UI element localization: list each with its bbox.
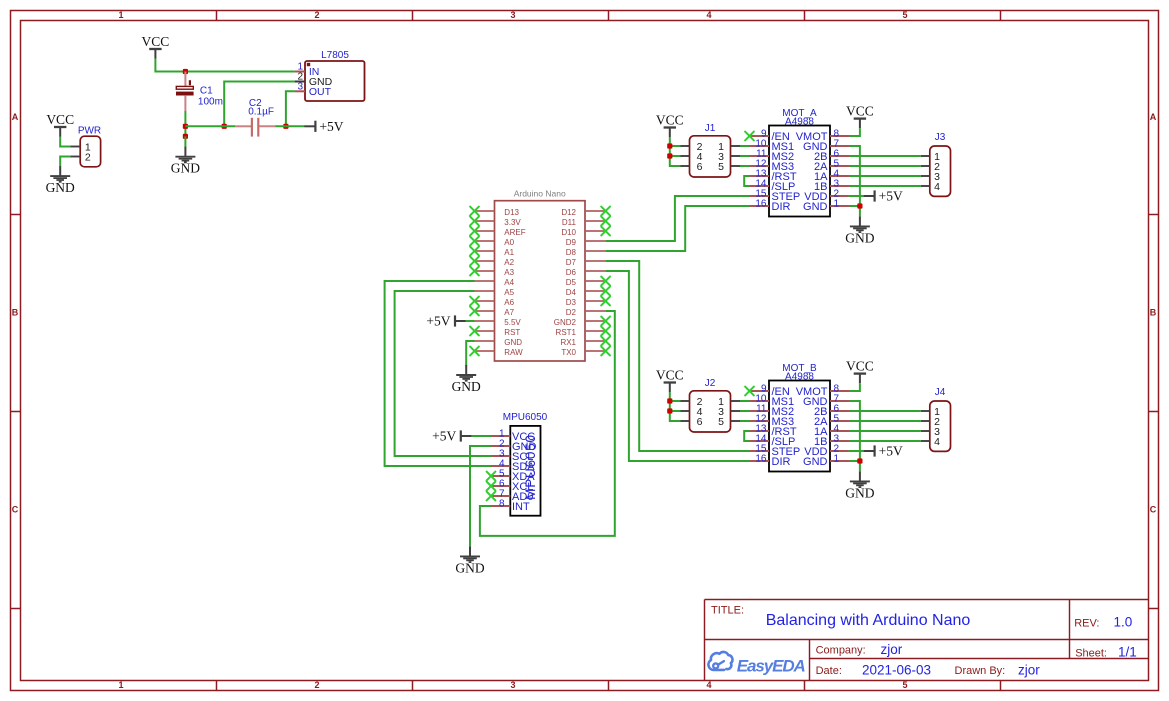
pin RAW (left) — [475, 350, 495, 352]
svg-text:D7: D7 — [566, 258, 577, 267]
svg-text:6: 6 — [697, 416, 703, 428]
wire VDD (MOT_B) — [849, 450, 864, 452]
svg-text:D9: D9 — [566, 238, 577, 247]
wire to ground — [184, 136, 186, 147]
pin 4 1A — [830, 175, 850, 177]
svg-text:J4: J4 — [935, 387, 946, 398]
pin 9 /EN — [750, 135, 769, 137]
svg-text:GND: GND — [452, 379, 481, 394]
driver MOT_A A4988 — [750, 108, 850, 217]
pin GND (left) — [475, 340, 495, 342]
pin D5 (right) — [585, 280, 606, 282]
pin D3 (right) — [585, 300, 606, 302]
junction J2 pin2 — [667, 398, 672, 403]
pin 2 VDD — [830, 195, 850, 197]
pin 16 DIR — [750, 205, 769, 207]
pin 13 /RST — [750, 175, 769, 177]
svg-text:D13: D13 — [504, 208, 519, 217]
svg-text:RST: RST — [504, 328, 520, 337]
pin 2 GND — [295, 81, 305, 83]
svg-text:REV:: REV: — [1074, 617, 1099, 629]
wire VCC to VMOT — [850, 128, 860, 136]
svg-text:5: 5 — [718, 161, 724, 173]
net flag +5V (MPU VCC) — [471, 435, 491, 437]
pin 8 INT — [490, 505, 510, 507]
pin GND2 (right) — [585, 320, 606, 322]
pin 1 GND — [830, 205, 850, 207]
svg-text:4: 4 — [706, 680, 711, 690]
svg-text:DIR: DIR — [772, 456, 791, 468]
pin 10 MS1 — [750, 400, 769, 402]
wire VDD (MOT_A) — [849, 195, 864, 197]
svg-text:1: 1 — [118, 10, 123, 20]
pin 6 XCL — [490, 485, 510, 487]
connector J4 — [921, 387, 951, 451]
svg-text:B: B — [1150, 308, 1157, 318]
svg-text:GND: GND — [46, 180, 75, 195]
pin 1 GND — [830, 460, 850, 462]
svg-text:J1: J1 — [705, 123, 716, 134]
svg-text:D4: D4 — [566, 288, 577, 297]
svg-text:B: B — [12, 308, 19, 318]
svg-text:Drawn By:: Drawn By: — [955, 665, 1006, 677]
pin D8 (right) — [585, 250, 606, 252]
connector PWR — [70, 126, 101, 167]
svg-text:A5: A5 — [504, 288, 514, 297]
svg-text:6: 6 — [697, 161, 703, 173]
pin 3.3V (left) — [475, 220, 495, 222]
pin 4 SDA — [490, 465, 510, 467]
pin A0 (left) — [475, 240, 495, 242]
power flag VCC (PWR) — [46, 112, 74, 137]
pin 7 GND — [830, 145, 850, 147]
svg-text:A0: A0 — [504, 238, 514, 247]
svg-text:GND: GND — [803, 201, 828, 213]
svg-text:OUT: OUT — [309, 86, 332, 98]
wire net STEP_A : D9 to MOT_A STEP — [606, 196, 750, 241]
svg-text:3: 3 — [510, 680, 515, 690]
svg-text:C1: C1 — [200, 85, 213, 96]
wire MPU GND — [470, 446, 491, 546]
pin 15 STEP — [750, 450, 769, 452]
svg-text:A6: A6 — [504, 298, 514, 307]
svg-text:D12: D12 — [561, 208, 576, 217]
pin 11 MS2 — [750, 155, 769, 157]
junction J2 pin4 — [667, 408, 672, 413]
pin 1 IN — [295, 71, 305, 73]
junction GND (MOT_B) — [857, 458, 862, 463]
pin TX0 (right) — [585, 350, 606, 352]
svg-text:GND: GND — [455, 560, 484, 575]
junction at C1 top — [183, 69, 188, 74]
EasyEDA logo — [708, 652, 732, 670]
svg-text:J3: J3 — [935, 132, 946, 143]
svg-text:Sheet:: Sheet: — [1075, 647, 1107, 659]
pin D6 (right) — [585, 270, 606, 272]
wire net INT : Arduino D2 to MPU pin8 — [480, 311, 615, 536]
svg-text:3: 3 — [510, 10, 515, 20]
svg-text:+5V: +5V — [879, 189, 903, 204]
svg-text:AREF: AREF — [504, 228, 525, 237]
svg-text:EasyEDA: EasyEDA — [737, 656, 806, 675]
ground (MOT_A) — [845, 216, 874, 245]
svg-text:Company:: Company: — [816, 645, 866, 657]
svg-text:zjor: zjor — [881, 642, 903, 657]
svg-text:J2: J2 — [705, 378, 716, 389]
pin 13 /RST — [750, 430, 769, 432]
svg-text:2: 2 — [314, 10, 319, 20]
svg-text:4: 4 — [934, 181, 940, 193]
svg-text:MPU6050: MPU6050 — [503, 412, 548, 423]
wire net STEP_B : D7 to MOT_B STEP — [606, 261, 750, 451]
svg-text:3.3V: 3.3V — [504, 218, 521, 227]
svg-text:GND2: GND2 — [554, 318, 577, 327]
pin 3 SCL — [490, 455, 510, 457]
wire Arduino GND — [466, 341, 474, 366]
pin 9 /EN — [750, 390, 769, 392]
pin A3 (left) — [475, 270, 495, 272]
svg-text:GND: GND — [171, 161, 200, 176]
pin 3 1B — [830, 440, 850, 442]
pin A1 (left) — [475, 250, 495, 252]
pin 5.5V (left) — [475, 320, 495, 322]
svg-text:D2: D2 — [566, 308, 577, 317]
pin 5 XDA — [490, 475, 510, 477]
svg-text:1: 1 — [118, 680, 123, 690]
pin A4 (left) — [475, 280, 495, 282]
pin AREF (left) — [475, 230, 495, 232]
svg-text:GND: GND — [803, 456, 828, 468]
svg-text:VCC: VCC — [846, 103, 874, 118]
pin D13 (left) — [475, 210, 495, 212]
pin 14 /SLP — [750, 185, 769, 187]
ground (PWR) — [46, 166, 75, 195]
svg-text:GND: GND — [504, 338, 522, 347]
ground (MPU6050) — [455, 546, 484, 575]
svg-text:MPU6050: MPU6050 — [523, 434, 538, 500]
no-connect mark /EN (MOT_B) — [745, 387, 754, 396]
connector J1 — [681, 123, 741, 177]
svg-text:Balancing with Arduino Nano: Balancing with Arduino Nano — [766, 612, 971, 629]
pin 3 OUT — [295, 90, 305, 92]
pin D4 (right) — [585, 290, 606, 292]
pin D2 (right) — [585, 310, 606, 312]
svg-text:100m: 100m — [198, 97, 223, 108]
no-connect marks Arduino left — [470, 207, 479, 356]
no-connect mark /EN (MOT_A) — [745, 132, 754, 141]
svg-text:GND: GND — [845, 230, 874, 245]
wire VCC to PWR pin 1 — [60, 137, 70, 147]
junction C1 bottom rail — [183, 124, 188, 129]
ground (C1) — [171, 147, 200, 176]
svg-text:2021-06-03: 2021-06-03 — [862, 662, 931, 677]
no-connect marks Arduino right — [601, 207, 610, 356]
ground (Arduino) — [452, 365, 481, 394]
svg-text:5.5V: 5.5V — [504, 318, 521, 327]
power flag VCC (MOT_B VMOT) — [846, 358, 874, 383]
wire GND net (MOT_B) — [850, 401, 860, 471]
pin 6 2B — [830, 155, 850, 157]
junction J1 pin4 — [667, 153, 672, 158]
svg-text:8: 8 — [499, 499, 505, 510]
svg-text:RST1: RST1 — [556, 328, 577, 337]
pin RST (left) — [475, 330, 495, 332]
svg-text:D3: D3 — [566, 298, 577, 307]
wire net DIR_A : D8 to MOT_A DIR — [606, 206, 750, 251]
pin 6 2B — [830, 410, 850, 412]
wires MOT_B outputs to J4 — [850, 410, 921, 412]
wire GND net (MOT_A) — [850, 146, 860, 216]
wires MOT_A outputs to J3 — [850, 155, 921, 157]
svg-text:2: 2 — [314, 680, 319, 690]
pin 1 VCC — [490, 435, 510, 437]
pin 2 VDD — [830, 450, 850, 452]
wire J2 to MS pins — [740, 400, 750, 402]
wire PWR pin 2 to ground — [60, 157, 70, 167]
power flag VCC (MOT_A VMOT) — [846, 103, 874, 128]
wire L7805 OUT down — [286, 91, 295, 126]
pin 7 GND — [830, 400, 850, 402]
pin 8 VMOT — [830, 390, 850, 392]
pin 3 1B — [830, 185, 850, 187]
svg-text:A: A — [1150, 112, 1157, 122]
wire J1 to MS pins — [740, 145, 750, 147]
wire /RST to /SLP (MOT_B) — [744, 431, 750, 441]
svg-text:0.1µF: 0.1µF — [248, 107, 274, 118]
net flag +5V (MOT_A VDD) — [864, 189, 903, 204]
pin RX1 (right) — [585, 340, 606, 342]
pin 16 DIR — [750, 460, 769, 462]
connector J2 — [681, 378, 741, 432]
svg-text:1.0: 1.0 — [1114, 615, 1133, 630]
svg-text:D10: D10 — [561, 228, 576, 237]
svg-text:RAW: RAW — [504, 348, 523, 357]
pin 2 GND — [490, 445, 510, 447]
svg-text:+5V: +5V — [426, 314, 450, 329]
wire VCC to VMOT — [850, 383, 860, 391]
svg-text:1/1: 1/1 — [1118, 645, 1137, 660]
pin 15 STEP — [750, 195, 769, 197]
junction GND rail — [222, 124, 227, 129]
wire net DIR_B : D6 to MOT_B DIR — [606, 271, 750, 461]
svg-text:D6: D6 — [566, 268, 577, 277]
svg-text:+5V: +5V — [879, 444, 903, 459]
pin 8 VMOT — [830, 135, 850, 137]
pin 12 MS3 — [750, 420, 769, 422]
net flag +5V (Arduino 5.5V pin) — [466, 320, 475, 322]
svg-text:3: 3 — [297, 82, 303, 93]
wire net SCL : Arduino A5 to MPU pin3 — [395, 291, 491, 456]
wire VCC to J2 pins — [670, 392, 681, 421]
svg-text:VCC: VCC — [846, 358, 874, 373]
power flag VCC (J1) — [656, 112, 684, 137]
title block — [705, 600, 1149, 681]
svg-text:4: 4 — [706, 10, 711, 20]
pin A5 (left) — [475, 290, 495, 292]
connector J3 — [921, 132, 951, 196]
svg-text:+5V: +5V — [319, 119, 343, 134]
svg-text:2: 2 — [85, 151, 91, 163]
svg-text:INT: INT — [512, 501, 530, 513]
pin D7 (right) — [585, 260, 606, 262]
wire VCC to J1 pins — [670, 137, 681, 166]
svg-text:Arduino Nano: Arduino Nano — [514, 189, 566, 199]
svg-text:Date:: Date: — [816, 665, 842, 677]
svg-text:DIR: DIR — [772, 201, 791, 213]
capacitor C1 100m — [176, 72, 223, 112]
svg-text:5: 5 — [718, 416, 724, 428]
svg-text:A7: A7 — [504, 308, 514, 317]
pin 10 MS1 — [750, 145, 769, 147]
ground (MOT_B) — [845, 471, 874, 500]
svg-text:D11: D11 — [562, 218, 577, 227]
pin 5 2A — [830, 420, 850, 422]
power flag VCC (J2) — [656, 367, 684, 392]
junction J1 pin2 — [667, 143, 672, 148]
wire C1 to ground rail — [184, 111, 186, 136]
pin 7 AD0 — [490, 495, 510, 497]
net flag +5V (L7805 out) — [304, 119, 343, 134]
svg-text:TITLE:: TITLE: — [711, 605, 744, 617]
pin D12 (right) — [585, 210, 606, 212]
svg-text:PWR: PWR — [78, 126, 101, 137]
svg-text:L7805: L7805 — [321, 50, 349, 61]
net flag +5V (MOT_B VDD) — [864, 444, 903, 459]
pin A7 (left) — [475, 310, 495, 312]
svg-text:4: 4 — [934, 436, 940, 448]
pin D11 (right) — [585, 220, 606, 222]
wire L7805 GND to rail — [224, 82, 294, 127]
svg-text:C: C — [1150, 505, 1157, 515]
svg-text:VCC: VCC — [656, 367, 684, 382]
power flag VCC (supply input) — [142, 34, 170, 59]
capacitor C2 0.1uF — [235, 98, 276, 137]
pin 12 MS3 — [750, 165, 769, 167]
junction OUT rail — [283, 124, 288, 129]
svg-text:zjor: zjor — [1018, 662, 1040, 677]
module Arduino Nano — [475, 189, 606, 361]
pin A6 (left) — [475, 300, 495, 302]
svg-text:VCC: VCC — [46, 112, 74, 127]
wire bottom rail — [185, 125, 235, 127]
svg-text:A2: A2 — [504, 258, 514, 267]
no-connect marks MPU6050 — [487, 472, 496, 501]
pin 4 1A — [830, 430, 850, 432]
svg-text:1: 1 — [834, 453, 840, 464]
wire /RST to /SLP (MOT_A) — [744, 176, 750, 186]
regulator L7805 — [295, 50, 365, 101]
svg-text:A: A — [12, 112, 19, 122]
pin D9 (right) — [585, 240, 606, 242]
svg-text:16: 16 — [755, 454, 767, 465]
svg-text:TX0: TX0 — [561, 348, 576, 357]
svg-text:VCC: VCC — [656, 112, 684, 127]
svg-text:GND: GND — [845, 485, 874, 500]
pin 5 2A — [830, 165, 850, 167]
svg-text:A3: A3 — [504, 268, 514, 277]
svg-text:A4: A4 — [504, 278, 514, 287]
svg-text:5: 5 — [902, 10, 907, 20]
svg-text:5: 5 — [902, 680, 907, 690]
svg-text:1: 1 — [834, 198, 840, 209]
pin A2 (left) — [475, 260, 495, 262]
module MPU6050 — [490, 412, 548, 516]
svg-text:VCC: VCC — [142, 34, 170, 49]
svg-text:D8: D8 — [566, 248, 577, 257]
pin 11 MS2 — [750, 410, 769, 412]
svg-text:RX1: RX1 — [560, 338, 576, 347]
wire net SDA : Arduino A4 to MPU pin4 — [385, 281, 491, 466]
pin 14 /SLP — [750, 440, 769, 442]
svg-text:A1: A1 — [504, 248, 514, 257]
svg-text:C: C — [12, 505, 19, 515]
pin RST1 (right) — [585, 330, 606, 332]
svg-text:+5V: +5V — [432, 429, 456, 444]
junction GND (MOT_A) — [857, 203, 862, 208]
svg-text:D5: D5 — [566, 278, 577, 287]
driver MOT_B A4988 — [750, 363, 850, 472]
junction C1 ground tap — [183, 134, 188, 139]
pin D10 (right) — [585, 230, 606, 232]
wire VCC to L7805 IN — [155, 59, 294, 72]
svg-text:16: 16 — [755, 199, 767, 210]
